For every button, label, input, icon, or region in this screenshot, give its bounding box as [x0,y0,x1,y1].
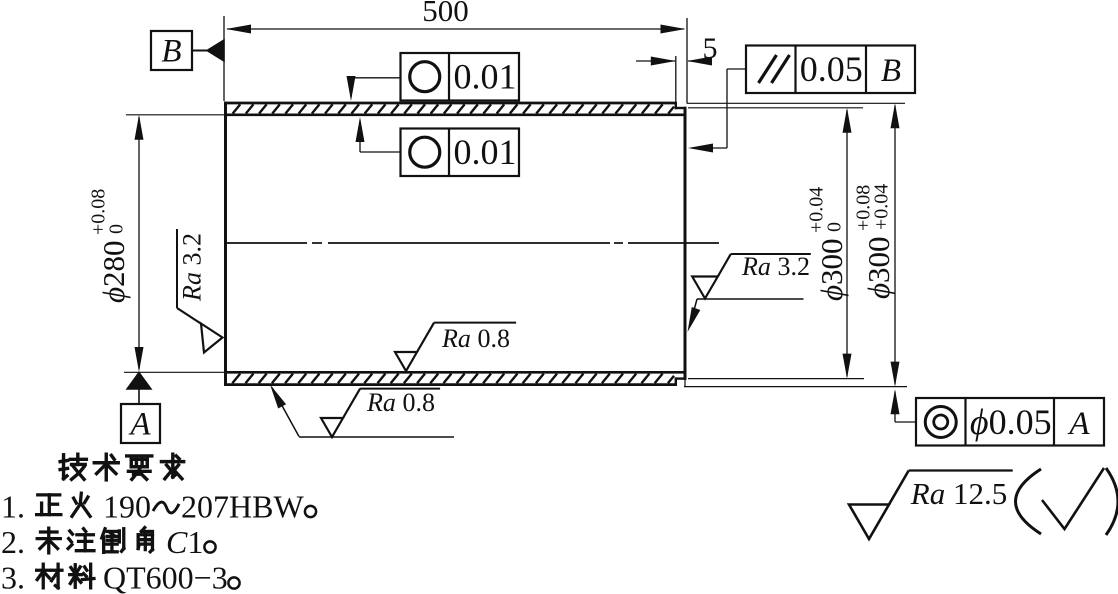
svg-text:+0.04: +0.04 [871,184,893,230]
dimension value phi300 +0.04/0 [806,187,850,301]
parallelism frame [746,46,915,94]
svg-text:Ra 3.2: Ra 3.2 [178,233,207,302]
datum A stem [138,389,140,404]
svg-text:207HBW: 207HBW [181,489,304,525]
dimension line phi300 +0.04/0 (land) [843,108,852,379]
svg-text:3.: 3. [1,560,25,594]
note 3 value QT600-3 [103,560,240,594]
extension line bottom B (y=386.6) [684,386,907,388]
dimension line phi300 +0.08/+0.04 (body) [891,103,900,386]
concentricity leader [891,389,917,422]
extension line left end (x=224) [223,16,225,101]
svg-text:C1: C1 [166,524,203,560]
extension line for 5 land (x=675.8) [675,56,677,102]
land outer contour bottom [675,377,687,379]
note 1 number [1,489,25,525]
roughness Ra 3.2 left end face [177,229,223,353]
svg-text:Ra 12.5: Ra 12.5 [910,476,1007,511]
part top wall outer contour [224,102,677,105]
svg-text:ϕ300: ϕ300 [814,238,849,301]
svg-text:500: 500 [422,0,469,28]
extension line bottom A (y=378.6) [688,378,864,380]
title JiShuYaoQiu (technical requirements) [60,454,184,480]
concentricity frame [916,398,1104,446]
svg-text:1.: 1. [1,489,25,525]
svg-text:A: A [128,407,151,443]
extension line top B (y=107.8) [688,107,863,109]
datum B filled triangle [207,40,224,61]
svg-text:0.05: 0.05 [800,49,863,89]
extension line bore bottom left (y=372) [124,371,224,373]
svg-text:0: 0 [824,222,846,232]
extension line bore top left (y=115) [126,114,224,116]
svg-text:B: B [881,53,901,89]
svg-text:ϕ280: ϕ280 [96,240,131,303]
part top wall inner bore line [224,114,687,117]
datum B stem [192,50,208,52]
circularity frame 1 (top) [401,53,520,101]
dimension value 5 [703,32,718,65]
svg-text:190: 190 [103,489,151,525]
centre line (axis) [224,242,719,244]
extension line top A (y=103.3) [687,102,905,104]
dimension line 500 [226,25,686,34]
left end face [224,102,227,386]
leader of circularity frame 2 [356,117,401,152]
note 2 number [1,524,25,560]
svg-text:0.01: 0.01 [454,132,517,172]
dimension 5 arrows [636,57,712,66]
part bottom wall inner bore line [224,371,687,374]
general roughness Ra 12.5 [849,471,1013,540]
land outer contour top [675,107,687,109]
dimension value phi300 +0.08/+0.04 [853,184,897,299]
roughness Ra 3.2 outer surface right (leader) [688,252,811,332]
parenthesis right [1106,468,1118,535]
basic symbol check [1042,468,1104,529]
dimension value phi280 +0.08/0 [88,189,132,303]
svg-text:Ra 0.8: Ra 0.8 [366,388,435,417]
hatching of bottom wall [232,374,674,384]
note 2 value C1 [166,524,216,560]
svg-text:0: 0 [106,224,128,234]
hatching of top wall [233,104,674,113]
note 3 number [1,560,25,594]
roughness Ra 0.8 bore surface [395,323,516,371]
note 3 CaiLiao (material) [37,564,94,588]
svg-text:0.01: 0.01 [454,57,517,97]
svg-text:ϕ300: ϕ300 [861,236,896,299]
svg-text:QT600−3: QT600−3 [103,560,228,594]
parenthesis left [1016,469,1042,534]
note 1 value 190-207HBW [103,489,316,525]
dimension line phi280 [135,115,144,372]
note 1 ZhengHuo (normalizing) [37,493,90,516]
part bottom wall outer contour [224,383,677,386]
circularity frame 2 (bottom) [401,129,520,177]
svg-text:Ra 3.2: Ra 3.2 [741,252,810,281]
svg-text:A: A [1067,406,1090,442]
extension line right end (x=687) [686,18,688,104]
svg-text:ϕ0.05: ϕ0.05 [970,402,1052,442]
right end face [684,107,687,380]
dimension value 500 [422,0,469,28]
svg-text:Ra 0.8: Ra 0.8 [441,324,510,353]
step shoulder bottom [675,377,677,385]
right end face thin continuation [684,379,686,387]
svg-text:5: 5 [703,32,718,65]
step shoulder top [675,102,677,109]
note 2 WeiZhuDaoJiao (unnoted chamfers) [37,528,152,553]
parallelism leader [688,69,746,153]
datum B box [151,31,192,70]
svg-text:2.: 2. [1,524,25,560]
datum A filled triangle [127,373,151,390]
datum A box [121,404,160,443]
leader of circularity frame 1 [347,76,401,101]
svg-text:B: B [161,34,181,70]
roughness Ra 0.8 bottom outer surface (leader) [270,385,454,438]
